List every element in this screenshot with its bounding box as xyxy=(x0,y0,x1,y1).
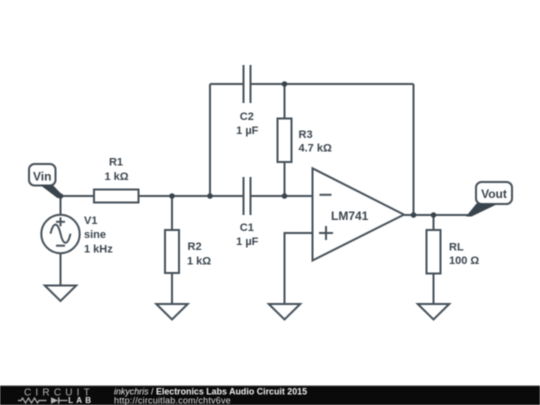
capacitor C2 plates xyxy=(243,65,245,103)
resistor R2 body xyxy=(165,230,179,273)
resistor RL body xyxy=(427,230,441,274)
flag terminal Vout pointer xyxy=(466,204,497,217)
svg-text:R2: R2 xyxy=(188,241,202,253)
op-amp U1 plus marker xyxy=(319,232,333,234)
flag terminal Vin box xyxy=(29,164,56,186)
svg-text:Vout: Vout xyxy=(481,187,507,201)
wire R2 bottom to ground xyxy=(171,273,173,304)
svg-text:RL: RL xyxy=(449,241,464,253)
node junction R3/C1/op-amp xyxy=(282,193,288,199)
voltage source V1 plus sign xyxy=(56,221,65,223)
node junction feedback/output xyxy=(411,212,417,218)
op-amp U1 triangle xyxy=(313,168,405,260)
wire op-amp output to Vout xyxy=(404,214,470,216)
ground under R2 xyxy=(156,304,188,320)
wire C1 to op-amp minus input xyxy=(252,195,313,197)
node junction RL/output xyxy=(431,212,437,218)
ground under V1 xyxy=(45,286,77,302)
flag terminal Vout box xyxy=(476,182,512,204)
wire R3 top xyxy=(284,84,286,119)
wire top left to C2 xyxy=(210,83,243,85)
ground under RL xyxy=(418,304,450,320)
voltage source V1 minus sign xyxy=(56,245,65,247)
ground under op-amp plus input xyxy=(269,304,301,320)
svg-text:V1: V1 xyxy=(84,215,97,227)
wire feedback vertical xyxy=(413,84,415,215)
CircuitLab logo resistor zigzag xyxy=(18,398,47,403)
wire V1 bottom to ground xyxy=(60,253,62,286)
node junction R1/R2 xyxy=(169,193,175,199)
svg-text:1 kΩ: 1 kΩ xyxy=(187,255,211,267)
svg-text:sine: sine xyxy=(84,229,106,241)
footer bar xyxy=(0,386,540,405)
wire op-amp plus input xyxy=(285,233,313,304)
svg-text:4.7 kΩ: 4.7 kΩ xyxy=(299,143,332,155)
svg-text:1 kHz: 1 kHz xyxy=(84,243,113,255)
wire Vin node to R1 xyxy=(61,195,95,197)
svg-text:R3: R3 xyxy=(299,129,313,141)
svg-text:1 µF: 1 µF xyxy=(236,236,259,248)
node junction Vin/V1/R1 xyxy=(58,193,64,199)
wire R3 bottom to node xyxy=(284,162,286,196)
wire C2 to feedback corner xyxy=(252,83,414,85)
svg-text:1 kΩ: 1 kΩ xyxy=(104,171,128,183)
svg-text:C1: C1 xyxy=(240,222,254,234)
voltage source V1 circle xyxy=(41,215,79,253)
voltage source V1 sine wave xyxy=(51,225,71,243)
wire node down to R2 xyxy=(171,196,173,230)
op-amp U1 minus marker xyxy=(320,194,332,196)
svg-text:R1: R1 xyxy=(109,157,123,169)
svg-text:Vin: Vin xyxy=(33,169,51,183)
svg-text:1 µF: 1 µF xyxy=(236,125,259,137)
resistor R1 body xyxy=(94,190,139,203)
wire RL top xyxy=(433,215,435,230)
wire node up to C2 branch xyxy=(209,84,211,196)
node junction R3/C2 top xyxy=(282,81,288,87)
capacitor C1 plates xyxy=(243,177,245,215)
CircuitLab logo diode xyxy=(51,397,58,403)
wire RL bottom to ground xyxy=(433,274,435,305)
resistor R3 body xyxy=(278,119,292,163)
wire R1 to C1 xyxy=(139,195,243,197)
svg-text:100 Ω: 100 Ω xyxy=(449,255,479,267)
svg-text:C2: C2 xyxy=(240,111,254,123)
flag terminal Vin pointer xyxy=(41,185,62,198)
node junction C2 branch xyxy=(207,193,213,199)
svg-text:http://circuitlab.com/chtv6ve: http://circuitlab.com/chtv6ve xyxy=(114,395,231,405)
wire Vin node down to V1 xyxy=(60,196,62,216)
svg-text:LM741: LM741 xyxy=(331,209,369,223)
svg-text:LAB: LAB xyxy=(68,396,94,405)
